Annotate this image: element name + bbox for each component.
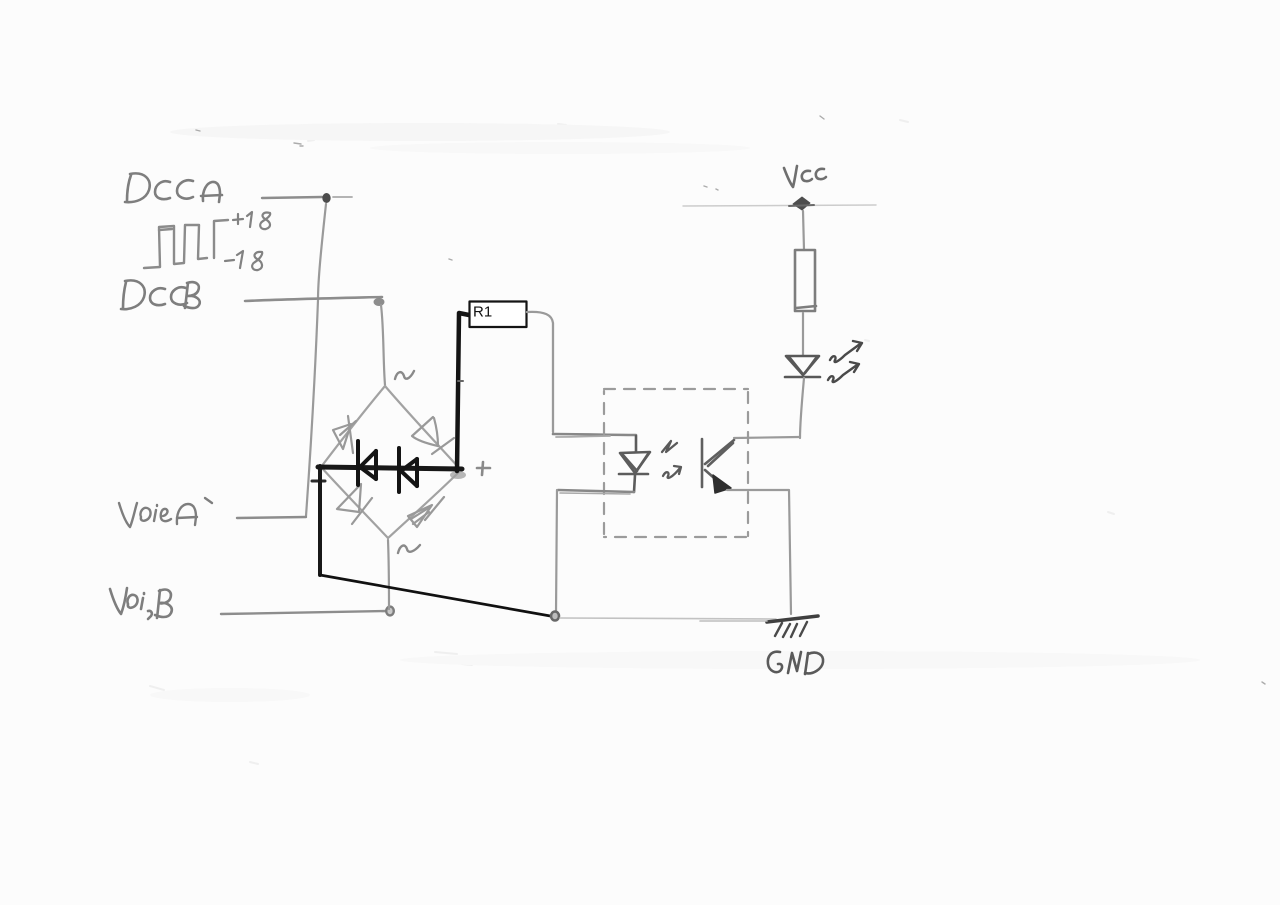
- label Vcc: [784, 166, 826, 187]
- net label DCC A: [125, 173, 222, 202]
- svg-text:R1: R1: [473, 304, 492, 321]
- faint line node to ground: [560, 618, 776, 619]
- opto light arrows: [662, 441, 681, 478]
- wire Vcc to R2: [803, 211, 804, 250]
- wire DCC B to bridge top: [381, 305, 385, 385]
- diode D5 (series bold, left): [358, 441, 376, 485]
- node Voie B: [386, 607, 394, 616]
- bridge AC mark bottom (~): [398, 545, 420, 553]
- opto phototransistor Q1: [702, 439, 734, 487]
- wire R2 to LED D7: [802, 313, 804, 355]
- LED D7 light arrows: [828, 341, 862, 382]
- wire opto cathode back: [558, 490, 634, 492]
- net label Voie B: [110, 588, 172, 619]
- scan smudge streaks: [170, 123, 670, 141]
- wire R1 to opto anode: [527, 312, 553, 432]
- label +18: [233, 212, 270, 229]
- wire Voie B: [221, 611, 388, 614]
- DCC signal waveform: [144, 220, 228, 268]
- label -18: [225, 251, 262, 270]
- emitter arrowhead: [713, 475, 731, 493]
- wire collector to LED chain: [734, 437, 799, 438]
- net label Voie A: [119, 498, 212, 527]
- node blob at + output: [450, 471, 466, 479]
- label GND: [768, 652, 823, 674]
- opto LED: [619, 436, 650, 492]
- tick on R1 wire: [458, 380, 463, 382]
- diode D1 (bridge top-left, pencil): [333, 416, 356, 453]
- bridge AC mark top (~): [395, 371, 414, 379]
- ground symbol: [767, 616, 818, 622]
- bold wire + to R1: [457, 313, 469, 471]
- diode D3 (bridge bottom-left, pencil): [337, 484, 372, 524]
- LED D7: [785, 356, 820, 377]
- bold wire bridge minus down: [318, 466, 322, 575]
- resistor R2: [795, 250, 816, 311]
- wire Voie A: [237, 517, 306, 518]
- bold DC output wire (bridge horizontal): [318, 467, 462, 469]
- resistor R1 box: [470, 302, 527, 328]
- node DCC B right end: [374, 298, 385, 306]
- node junction DCC A: [322, 193, 330, 203]
- net label DCC B: [121, 280, 200, 309]
- diode D4 (bridge bottom-right, pencil): [408, 497, 444, 527]
- wire bridge bottom to Voie B: [388, 540, 389, 609]
- node Vcc: [793, 197, 810, 210]
- wire DCC A: [262, 197, 322, 198]
- bold diagonal wire minus to opto cathode node: [320, 575, 556, 617]
- Vcc rail faint line: [683, 205, 876, 206]
- diode bridge frame: [321, 386, 461, 538]
- wire emitter to GND: [727, 490, 791, 614]
- diode D6 (series bold, right): [399, 448, 417, 492]
- wire DCC B: [245, 297, 382, 301]
- plus terminal mark: [477, 462, 490, 475]
- optocoupler U1 dashed box: [604, 389, 748, 537]
- diode D2 (bridge top-right, pencil): [412, 417, 454, 454]
- node opto cathode / bridge minus: [551, 612, 559, 621]
- minus terminal mark: [312, 480, 325, 483]
- wire DCC A to Voie A node: [306, 204, 326, 516]
- wire LED D7 down to collector: [800, 378, 804, 438]
